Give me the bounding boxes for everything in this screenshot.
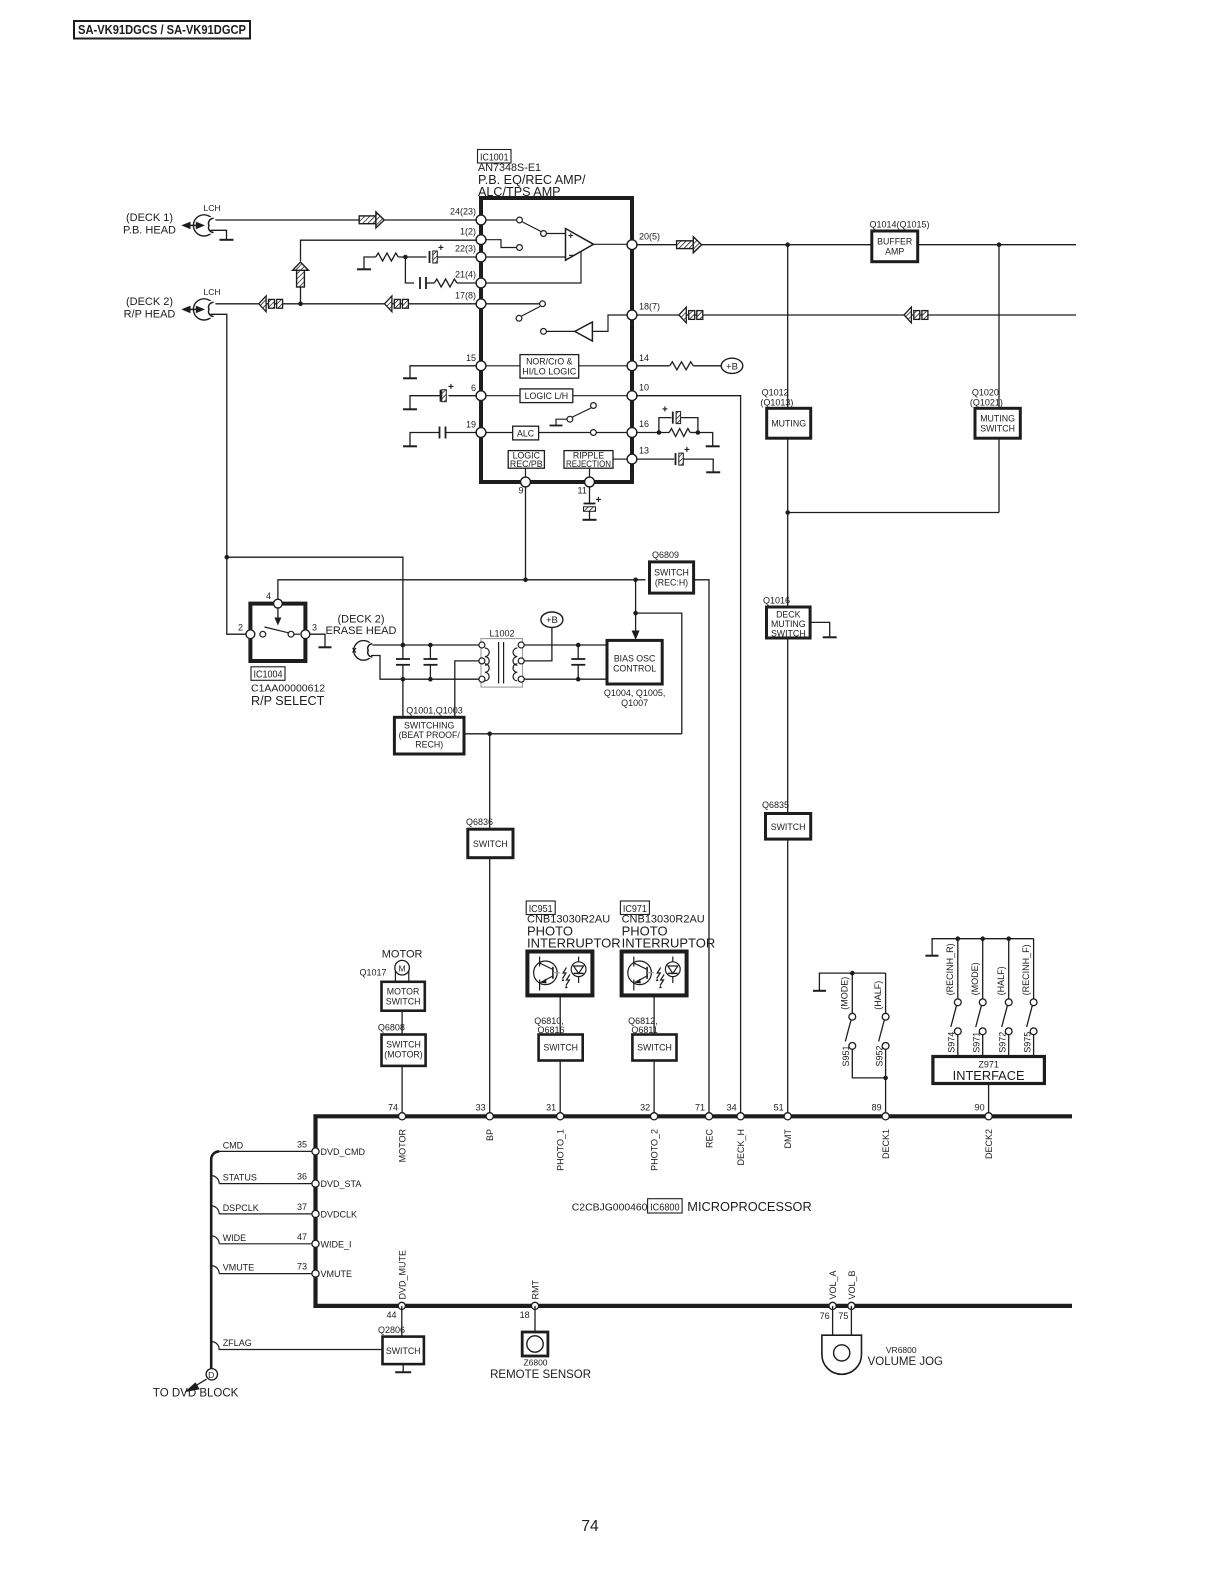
svg-text:VOL_B: VOL_B <box>847 1270 857 1299</box>
svg-text:STATUS: STATUS <box>223 1173 257 1183</box>
wire switching output to right riser <box>464 733 682 735</box>
capacitor electrolytic parallel at pin16 <box>659 405 698 433</box>
svg-text:9: 9 <box>519 486 524 496</box>
wire Q6809 output right and down to bus REC <box>694 580 709 1114</box>
node junction top rail x403 <box>401 643 406 648</box>
svg-text:CONTROL: CONTROL <box>613 663 656 673</box>
svg-text:Q1016: Q1016 <box>763 596 790 606</box>
wire secondary center tap to +B <box>524 627 552 661</box>
node junctions on rail <box>956 936 961 941</box>
signal arrow right on 24(23) wire <box>359 212 384 228</box>
svg-text:SWITCH: SWITCH <box>654 567 689 577</box>
wire junction down to pin21 network <box>405 257 414 283</box>
svg-text:36: 36 <box>297 1172 307 1182</box>
svg-text:NOR/CrO &: NOR/CrO & <box>526 356 573 366</box>
capacitor electrolytic at pin11 with ground <box>583 486 602 520</box>
block NOR/CrO & HI/LO LOGIC <box>481 355 628 379</box>
wire VMUTE <box>211 1263 312 1274</box>
power +B above L1002 <box>541 612 563 627</box>
svg-text:33: 33 <box>476 1103 486 1113</box>
wire arrow into bias osc control <box>632 613 640 640</box>
node junction bottom rail x403 <box>401 677 406 682</box>
svg-text:INTERFACE: INTERFACE <box>953 1068 1025 1083</box>
svg-text:Q1007: Q1007 <box>621 698 648 708</box>
svg-text:14: 14 <box>639 353 649 363</box>
svg-text:MOTOR: MOTOR <box>398 1129 408 1163</box>
IC971 photo interruptor labels <box>620 901 715 951</box>
svg-text:+: + <box>662 405 668 416</box>
control VR6800 VOLUME JOG <box>822 1335 943 1374</box>
bus pin 71 REC <box>695 1103 714 1148</box>
svg-text:REJECTION: REJECTION <box>566 459 611 469</box>
wire Q6836 down to bus BP <box>489 858 491 1114</box>
bus pin 75 VOL_B <box>838 1270 857 1320</box>
svg-text:Q1017: Q1017 <box>359 968 386 978</box>
wire Q1012 down to bus DMT <box>787 438 789 1114</box>
capacitor at pin19 with ground <box>403 427 477 447</box>
svg-text:BP: BP <box>485 1129 495 1141</box>
svg-text:Q1012: Q1012 <box>762 387 789 397</box>
signal arrow left segmented mid <box>385 296 409 312</box>
bus pin 37 DVDCLK <box>297 1202 357 1220</box>
svg-text:Q1014(Q1015): Q1014(Q1015) <box>870 220 930 230</box>
bus pin 35 DVD_CMD <box>297 1140 366 1158</box>
svg-text:89: 89 <box>872 1103 882 1113</box>
svg-text:MOTOR: MOTOR <box>382 949 423 961</box>
svg-text:TO DVD BLOCK: TO DVD BLOCK <box>153 1388 239 1400</box>
node junction deck2 branch <box>225 555 230 560</box>
bus pin 18 RMT <box>520 1280 541 1320</box>
bus pin 76 VOL_A <box>820 1270 839 1320</box>
svg-text:(MODE): (MODE) <box>840 977 850 1010</box>
svg-text:MOTOR: MOTOR <box>387 986 420 996</box>
svg-text:REC: REC <box>704 1129 714 1149</box>
wire ZFLAG <box>211 1338 382 1350</box>
svg-text:DMT: DMT <box>783 1129 793 1149</box>
svg-text:20(5): 20(5) <box>639 232 660 242</box>
IC1001 right pin numbers <box>639 232 660 456</box>
svg-text:35: 35 <box>297 1140 307 1150</box>
svg-text:76: 76 <box>820 1311 830 1321</box>
IC1001 left pins <box>476 215 486 437</box>
wire primary center tap to switching box <box>455 661 479 717</box>
svg-text:ZFLAG: ZFLAG <box>223 1338 252 1348</box>
node D to DVD block <box>153 1369 239 1400</box>
svg-text:16: 16 <box>639 419 649 429</box>
svg-text:+: + <box>448 382 454 393</box>
signal arrow left segmented on 18(7) wire near IC <box>679 307 703 323</box>
svg-text:S974: S974 <box>947 1032 957 1053</box>
svg-text:C2CBJG000460: C2CBJG000460 <box>572 1202 648 1213</box>
svg-text:32: 32 <box>640 1103 650 1113</box>
svg-text:+: + <box>684 445 690 456</box>
wire pin9 down to node <box>525 486 527 580</box>
ground interface switch rail <box>925 939 957 956</box>
svg-text:(MOTOR): (MOTOR) <box>384 1049 423 1059</box>
svg-text:(REC:H): (REC:H) <box>655 577 688 587</box>
ground deck1 head <box>211 230 227 239</box>
feedback wire pin21(4) <box>481 252 581 284</box>
svg-text:BUFFER: BUFFER <box>877 237 912 247</box>
svg-text:IC1004: IC1004 <box>254 669 283 681</box>
bus pin 32 PHOTO_2 <box>640 1103 659 1171</box>
capacitor electrolytic at pin22 <box>430 243 478 263</box>
transistor Q1016 DECK MUTING SWITCH <box>763 596 810 639</box>
svg-text:C1AA00000612: C1AA00000612 <box>251 683 325 695</box>
op-amp U1a <box>566 229 594 263</box>
bus pin 33 BP <box>476 1103 495 1141</box>
transistor Q6809 SWITCH (REC:H) <box>650 550 694 593</box>
wire interface switch top rail <box>958 938 1034 940</box>
svg-text:22(3): 22(3) <box>455 244 476 254</box>
wire pin10 right and down to bus DECK_H <box>636 396 741 1114</box>
wire IC971 to Q6812 switch <box>653 995 655 1034</box>
svg-text:73: 73 <box>297 1262 307 1272</box>
transistor Q2806 SWITCH <box>378 1325 424 1364</box>
svg-text:Q6836: Q6836 <box>466 817 493 827</box>
svg-text:75: 75 <box>838 1311 848 1321</box>
IC U1 IC1001 body <box>481 198 632 482</box>
bus pin 44 DVD_MUTE <box>386 1250 407 1320</box>
svg-text:21(4): 21(4) <box>455 270 476 280</box>
wire erase head top lead <box>373 644 479 646</box>
transistor Q6812,Q6811 SWITCH <box>628 1016 676 1060</box>
svg-text:VMUTE: VMUTE <box>321 1269 353 1279</box>
svg-text:2: 2 <box>238 623 243 633</box>
svg-text:S975: S975 <box>1022 1032 1032 1053</box>
wire interface to bus DECK2 <box>988 1084 990 1115</box>
svg-text:10: 10 <box>639 383 649 393</box>
wire motor switch to switch(motor) <box>401 1011 403 1035</box>
wire deck2 lead continues to IC1004 pin2 <box>227 557 247 634</box>
transistor Q1012(Q1013) MUTING <box>760 245 810 438</box>
wire secondary bottom to bias box <box>524 678 607 680</box>
svg-text:(DECK 2): (DECK 2) <box>337 613 384 625</box>
svg-text:74: 74 <box>581 1518 599 1535</box>
wire secondary top to bias box <box>524 644 607 646</box>
svg-text:S952: S952 <box>874 1045 884 1066</box>
svg-text:P.B. HEAD: P.B. HEAD <box>123 225 176 237</box>
bus pin 74 MOTOR <box>388 1103 408 1163</box>
svg-text:(MODE): (MODE) <box>970 962 980 995</box>
wire op-amp output to pin20 <box>594 243 629 245</box>
svg-text:INTERRUPTOR: INTERRUPTOR <box>622 936 716 951</box>
wire DVD signal trunk <box>211 1151 219 1368</box>
svg-text:+B: +B <box>546 615 558 626</box>
svg-text:(DECK 1): (DECK 1) <box>126 212 173 224</box>
wire CMD <box>217 1140 312 1151</box>
IC971 photo interruptor body <box>622 952 687 996</box>
switch S971 (MODE) <box>970 939 986 1057</box>
svg-text:PHOTO_2: PHOTO_2 <box>650 1129 660 1171</box>
ground S951 group <box>813 973 852 991</box>
IC1001 left pin numbers <box>450 207 476 430</box>
bus pin 31 PHOTO_1 <box>546 1103 565 1171</box>
svg-text:MICROPROCESSOR: MICROPROCESSOR <box>687 1199 811 1214</box>
svg-text:LOGIC L/H: LOGIC L/H <box>525 391 569 401</box>
svg-text:(HALF): (HALF) <box>996 966 1006 995</box>
bus pin 90 DECK2 <box>975 1103 994 1159</box>
svg-text:47: 47 <box>297 1232 307 1242</box>
ground Q2806 <box>395 1364 411 1372</box>
node junction at 613 <box>633 611 638 616</box>
block ALC with switch <box>481 403 628 440</box>
svg-text:24(23): 24(23) <box>450 207 476 217</box>
block RIPPLE REJECTION <box>564 450 628 478</box>
svg-text:LCH: LCH <box>204 287 221 297</box>
node junction on 20(5) wire at x999 <box>997 242 1002 247</box>
node junction pin9 wire on Q6809 input line <box>523 578 528 583</box>
switch S951 (MODE) <box>840 973 886 1078</box>
head DECK2 R/P HEAD <box>124 287 221 321</box>
wire deck1 head to pin24(23) <box>211 219 477 221</box>
transistor Q1001,Q1003 SWITCHING (BEAT PROOF/RECH) <box>394 706 464 754</box>
svg-text:REC/PB: REC/PB <box>510 459 543 469</box>
node junction on 17(8) wire <box>298 302 303 307</box>
node junction at pin22 network <box>403 255 408 260</box>
svg-text:R/P HEAD: R/P HEAD <box>124 309 176 321</box>
svg-text:(HALF): (HALF) <box>873 981 883 1010</box>
wire pin44 to Q2806 <box>401 1306 403 1337</box>
wire junction up to pin1(2) line with up arrow <box>300 287 302 304</box>
capacitor electrolytic at pin6 with ground <box>403 382 477 409</box>
svg-text:90: 90 <box>975 1103 985 1113</box>
svg-text:VR6800: VR6800 <box>886 1345 917 1355</box>
bus pin 47 WIDE_I <box>297 1232 352 1250</box>
signal arrow right on 20(5) wire <box>677 237 702 253</box>
ground IC1004 pin3 <box>310 634 332 647</box>
svg-text:Q6808: Q6808 <box>378 1022 405 1032</box>
svg-text:+B: +B <box>726 361 738 372</box>
wire DSPCLK <box>211 1203 312 1214</box>
op-amp U1 output wire pin20(5) to right edge <box>636 244 1076 246</box>
transistor Q6810,Q6816 SWITCH <box>534 1016 582 1060</box>
block LOGIC REC/PB <box>508 450 544 478</box>
svg-text:Q1004, Q1005,: Q1004, Q1005, <box>604 688 666 698</box>
svg-text:SWITCH: SWITCH <box>386 996 421 1006</box>
svg-text:3: 3 <box>312 623 317 633</box>
IC1001 right pins <box>627 240 637 464</box>
svg-text:SWITCH: SWITCH <box>386 1039 421 1049</box>
wire branch to erase head top rail <box>227 557 403 645</box>
svg-text:SWITCH: SWITCH <box>386 1346 421 1356</box>
svg-text:−: − <box>569 250 575 262</box>
block MOTOR SWITCH <box>382 982 425 1011</box>
svg-text:1(2): 1(2) <box>460 227 476 237</box>
IC1001 internal wire pin1(2) elbow <box>481 240 516 248</box>
bus pin 51 DMT <box>774 1103 793 1149</box>
svg-text:WIDE: WIDE <box>223 1233 247 1243</box>
inductor L1002 transformer <box>479 628 524 687</box>
wires pins 76/75 to volume jog <box>832 1306 834 1335</box>
transistor Q1020(Q1021) MUTING SWITCH <box>970 245 1020 513</box>
svg-text:SWITCH: SWITCH <box>473 839 508 849</box>
IC1001 internal wire pin22(3) to op-amp minus <box>481 256 566 258</box>
wire STATUS <box>211 1173 312 1184</box>
svg-text:BIAS OSC: BIAS OSC <box>614 653 656 663</box>
block BIAS OSC CONTROL Q1004,Q1005,Q1007 <box>604 640 666 708</box>
svg-text:44: 44 <box>386 1310 396 1320</box>
svg-text:(DECK 2): (DECK 2) <box>126 296 173 308</box>
svg-text:74: 74 <box>388 1103 398 1113</box>
svg-text:SWITCH: SWITCH <box>543 1043 578 1053</box>
svg-text:+: + <box>568 231 574 242</box>
svg-text:VOL_A: VOL_A <box>828 1270 838 1299</box>
IC951 photo interruptor labels <box>526 901 620 951</box>
svg-text:Q1001,Q1003: Q1001,Q1003 <box>406 706 463 716</box>
signal arrow left segmented on 18(7) wire right <box>904 307 928 323</box>
svg-text:S971: S971 <box>971 1032 981 1053</box>
bus pin 73 VMUTE <box>297 1262 352 1280</box>
svg-text:WIDE_I: WIDE_I <box>321 1239 352 1249</box>
svg-text:Z6800: Z6800 <box>523 1357 547 1367</box>
bus pin 34 DECK_H <box>727 1103 746 1166</box>
svg-text:LCH: LCH <box>204 203 221 213</box>
capacitor C at x578 <box>571 643 585 682</box>
wire node down to Q6836 <box>489 734 491 829</box>
capacitor C at x403 <box>396 645 410 717</box>
svg-text:ERASE HEAD: ERASE HEAD <box>326 625 397 637</box>
svg-text:(RECINH_R): (RECINH_R) <box>945 943 955 995</box>
wire S951 top rail <box>852 972 885 974</box>
svg-text:DVD_CMD: DVD_CMD <box>321 1147 366 1157</box>
buffer amp triangle inside IC1001 <box>541 329 547 335</box>
capacitor electrolytic at pin13 with ground <box>636 445 720 472</box>
wire IC1004 pin4 up and right to Q6809 input <box>278 580 646 600</box>
svg-text:DSPCLK: DSPCLK <box>223 1203 259 1213</box>
wire junction to Q1020 bottom <box>788 512 999 514</box>
svg-text:REMOTE SENSOR: REMOTE SENSOR <box>490 1369 591 1381</box>
wire Q6810 down to bus PHOTO_1 <box>559 1061 561 1115</box>
svg-text:71: 71 <box>695 1103 705 1113</box>
svg-text:Q1020: Q1020 <box>972 387 999 397</box>
svg-text:SWITCH: SWITCH <box>771 822 806 832</box>
node junction on switching output <box>487 732 492 737</box>
svg-text:13: 13 <box>639 446 649 456</box>
node junctions pin16 network <box>657 430 662 435</box>
svg-text:6: 6 <box>471 383 476 393</box>
svg-text:L1002: L1002 <box>489 628 514 638</box>
svg-text:17(8): 17(8) <box>455 291 476 301</box>
svg-text:RMT: RMT <box>531 1280 541 1300</box>
svg-text:D: D <box>208 1370 214 1380</box>
resistor at pin21 <box>434 279 477 287</box>
power +B at pin14 <box>721 358 743 373</box>
svg-text:IC6800: IC6800 <box>650 1201 680 1213</box>
node junction S951/S952 bottom <box>883 1076 888 1081</box>
svg-text:19: 19 <box>466 420 476 430</box>
svg-text:Q6835: Q6835 <box>762 800 789 810</box>
wire Q6812 down to bus PHOTO_2 <box>653 1061 655 1115</box>
transistor Q6835 SWITCH <box>762 800 811 839</box>
pin16 network resistor <box>636 429 698 437</box>
svg-text:18: 18 <box>520 1310 530 1320</box>
head DECK1 P.B. HEAD <box>123 203 221 237</box>
wire WIDE <box>211 1233 312 1244</box>
transistor Q1014(Q1015) BUFFER AMP <box>870 220 930 262</box>
IC6800 microprocessor label <box>572 1199 812 1214</box>
ground pin16 network <box>698 433 720 447</box>
ground at pin15 <box>403 366 477 379</box>
node junction at x788 y512 <box>785 510 790 515</box>
svg-text:M: M <box>399 963 406 973</box>
svg-text:51: 51 <box>774 1103 784 1113</box>
IC U1 IC1001 label <box>478 150 587 200</box>
svg-text:(Q1021): (Q1021) <box>970 397 1003 407</box>
svg-text:DVD_STA: DVD_STA <box>321 1179 362 1189</box>
IC1004 labels <box>251 667 325 708</box>
svg-text:INTERRUPTOR: INTERRUPTOR <box>527 936 621 951</box>
capacitor at pin21 <box>420 277 434 289</box>
node junction S951 top <box>850 971 855 976</box>
block LOGIC L/H <box>481 389 628 403</box>
node junction bias feed <box>633 578 638 583</box>
wire IC951 to Q6810 switch <box>559 995 561 1034</box>
svg-text:(RECINH_F): (RECINH_F) <box>1021 944 1031 995</box>
svg-text:Q2806: Q2806 <box>378 1325 405 1335</box>
wire deck2 head lower lead down <box>211 314 227 557</box>
svg-text:VOLUME JOG: VOLUME JOG <box>868 1356 943 1368</box>
bus pin 89 DECK1 <box>872 1103 891 1159</box>
ground Q1016 <box>810 622 837 637</box>
IC Z971 INTERFACE <box>933 1057 1045 1084</box>
wire pin18 to remote sensor <box>534 1306 536 1332</box>
IC1001 bottom pins 9 and 11 <box>519 477 595 495</box>
svg-text:MUTING: MUTING <box>980 414 1015 424</box>
svg-text:DVD_MUTE: DVD_MUTE <box>397 1250 407 1300</box>
svg-text:4: 4 <box>266 591 271 601</box>
IC1001 internal switch wire pin24 <box>481 219 516 221</box>
svg-text:VMUTE: VMUTE <box>223 1263 255 1273</box>
svg-text:(Q1013): (Q1013) <box>760 397 793 407</box>
transistor Q6836 SWITCH <box>466 817 513 858</box>
svg-text:Q6809: Q6809 <box>652 550 679 560</box>
svg-text:SA-VK91DGCS / SA-VK91DGCP: SA-VK91DGCS / SA-VK91DGCP <box>78 22 246 37</box>
svg-text:31: 31 <box>546 1103 556 1113</box>
svg-text:ALC: ALC <box>517 429 535 439</box>
wire deck2 head to pin17(8) <box>211 303 477 305</box>
signal arrow left segmented near deck2 <box>259 296 283 312</box>
IC U2 IC1004 R/P SELECT <box>238 591 317 661</box>
wire node right and down to switching output line <box>636 613 682 734</box>
svg-text:R/P SELECT: R/P SELECT <box>251 694 325 708</box>
title box SA-VK91DGCS / SA-VK91DGCP <box>74 21 250 39</box>
switch S972 (HALF) <box>996 939 1012 1057</box>
svg-text:S972: S972 <box>997 1032 1007 1053</box>
node junction on 20(5) wire at x788 <box>785 242 790 247</box>
transistor Q6808 SWITCH (MOTOR) <box>378 1022 426 1066</box>
svg-text:PHOTO_1: PHOTO_1 <box>556 1129 566 1171</box>
svg-text:AMP: AMP <box>885 247 904 257</box>
svg-text:SWITCH: SWITCH <box>637 1043 672 1053</box>
capacitor C at x430 <box>424 643 438 682</box>
svg-text:S951: S951 <box>841 1045 851 1066</box>
switch S952 (HALF) <box>873 973 889 1114</box>
svg-text:15: 15 <box>466 353 476 363</box>
svg-text:SWITCH: SWITCH <box>771 628 806 638</box>
sensor Z6800 REMOTE SENSOR <box>490 1332 591 1381</box>
svg-text:DECK1: DECK1 <box>881 1129 891 1159</box>
svg-text:DECK2: DECK2 <box>984 1129 994 1159</box>
signal arrow up <box>293 262 309 287</box>
svg-text:+: + <box>596 495 602 506</box>
svg-text:+: + <box>438 243 444 254</box>
bus pin 36 DVD_STA <box>297 1172 361 1190</box>
svg-text:11: 11 <box>578 486 587 496</box>
svg-text:37: 37 <box>297 1202 307 1212</box>
wire Q6808 down to bus MOTOR <box>401 1066 403 1114</box>
svg-text:MUTING: MUTING <box>771 419 806 429</box>
